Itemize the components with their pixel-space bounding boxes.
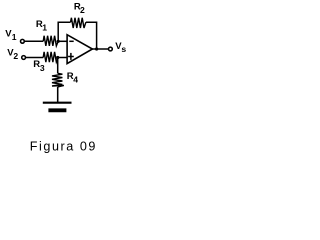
resistor R4 [52,73,64,87]
node junction R3/R4 (non-inverting input) [56,56,59,59]
node V1 input terminal [21,39,25,43]
wire feedback left leg (inverting node up to R2) [58,22,70,41]
node junction R1/R2 (inverting input) [57,40,60,43]
wire op-amp output to Vs terminal [92,48,108,50]
wire R1 to op-amp inverting input [58,40,67,42]
op-amp plus input marking [70,53,72,60]
resistor R1 [43,36,58,46]
wire R4 to ground [57,87,59,103]
wire V1 terminal to R1 [25,40,44,42]
node junction R2/output [95,47,98,50]
svg-text:Figura 09: Figura 09 [30,139,97,153]
svg-text:2: 2 [13,51,18,61]
resistor R3 [43,52,58,62]
node Vs output terminal [109,47,113,51]
node V2 input terminal [22,56,26,60]
op-amp U1 [67,35,92,64]
wire V2 terminal to R3 [26,57,43,59]
svg-text:3: 3 [40,63,45,73]
svg-text:2: 2 [80,5,85,15]
svg-text:1: 1 [42,23,47,33]
op-amp minus input marking [69,40,73,42]
svg-text:4: 4 [73,74,78,84]
svg-text:s: s [121,44,126,54]
resistor R2 [71,18,86,28]
ground [43,102,72,104]
wire non-inverting node down to R4 [57,58,59,74]
svg-text:1: 1 [12,32,17,42]
wire R2 to output node [86,22,97,49]
wire R3 to op-amp non-inverting input [58,57,67,59]
